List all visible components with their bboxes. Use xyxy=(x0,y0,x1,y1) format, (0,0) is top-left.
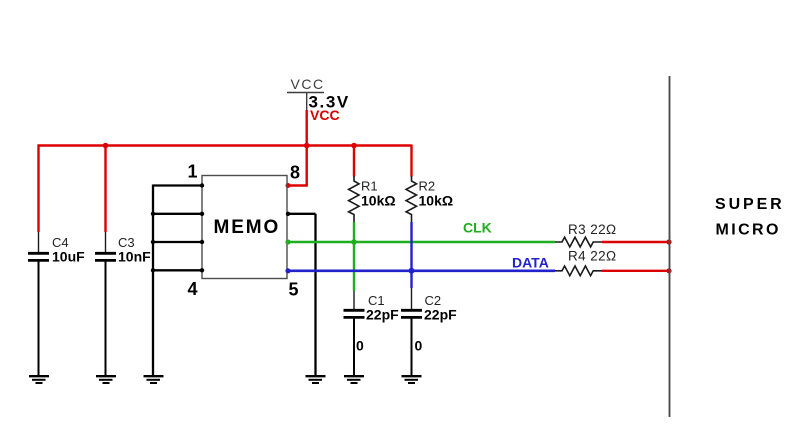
svg-text:22pF: 22pF xyxy=(424,307,457,323)
svg-text:CLK: CLK xyxy=(463,220,492,236)
wire VCC drop to R1 xyxy=(353,146,355,177)
wire CLK net (green horizontal) xyxy=(287,241,555,244)
svg-text:0: 0 xyxy=(356,338,364,354)
wire pin 3 stub xyxy=(153,241,202,243)
junction pin 3 xyxy=(200,240,204,244)
svg-text:1: 1 xyxy=(188,162,198,182)
wire R3 to header (red) xyxy=(602,241,670,243)
svg-text:22pF: 22pF xyxy=(366,307,399,323)
ground (chip left pins) xyxy=(144,376,164,383)
ground (pin 7) xyxy=(306,376,326,383)
resistor R2 xyxy=(406,176,416,222)
resistor R3 xyxy=(555,237,602,247)
capacitor C2 xyxy=(401,288,422,375)
svg-text:VCC: VCC xyxy=(310,107,340,123)
capacitor C3 xyxy=(95,232,116,375)
header bus line (right vertical) xyxy=(669,76,671,417)
wire VCC drop to R2 xyxy=(410,145,412,177)
wire R2 bottom to DATA xyxy=(410,222,412,271)
ground (C3) xyxy=(96,376,116,383)
resistor R4 xyxy=(555,266,602,276)
svg-text:10kΩ: 10kΩ xyxy=(419,193,454,209)
wire DATA net (blue horizontal) xyxy=(287,269,555,272)
svg-text:10nF: 10nF xyxy=(118,249,151,265)
chip U1 MEMO body xyxy=(202,176,287,279)
svg-text:R4 22Ω: R4 22Ω xyxy=(568,249,617,264)
capacitor C4 xyxy=(28,232,49,375)
svg-text:MICRO: MICRO xyxy=(716,222,781,239)
wire CLK to C1 xyxy=(353,242,355,291)
junction on bus at C3 xyxy=(103,143,109,149)
junction on bus at VCC stem xyxy=(304,143,310,149)
wire pin 1 stub xyxy=(153,184,202,186)
wire pin 4 stub xyxy=(153,269,202,271)
ground (C1) xyxy=(344,376,364,383)
junction chain pin 2 xyxy=(151,212,155,216)
ground (C2) xyxy=(402,376,422,383)
wire pin 7 vertical to ground xyxy=(314,214,316,375)
junction CLK at R1/C1 xyxy=(351,239,357,245)
junction on bus at R1 xyxy=(351,143,357,149)
svg-text:10uF: 10uF xyxy=(52,249,85,265)
svg-text:R3 22Ω: R3 22Ω xyxy=(568,222,617,237)
svg-text:0: 0 xyxy=(415,338,423,354)
wire pin 7 stub xyxy=(287,213,316,215)
wire VCC drop to C4 xyxy=(37,145,39,233)
svg-text:4: 4 xyxy=(188,279,198,299)
svg-text:R2: R2 xyxy=(419,179,436,194)
svg-text:MEMO: MEMO xyxy=(214,217,281,238)
svg-text:DATA: DATA xyxy=(512,255,549,271)
wire VCC bus (red horizontal) xyxy=(38,144,412,146)
junction chain pin 3 xyxy=(151,240,155,244)
junction pin 2 xyxy=(200,212,204,216)
wire left chain vertical to ground xyxy=(152,185,154,376)
power symbol VCC xyxy=(287,76,325,110)
wire pin 2 stub xyxy=(153,213,202,215)
svg-text:R1: R1 xyxy=(361,179,378,194)
junction CLK at pin 6 xyxy=(285,239,290,244)
junction pin 7 xyxy=(286,212,290,216)
junction chain pin 4 xyxy=(151,268,155,272)
svg-text:VCC: VCC xyxy=(291,76,325,92)
junction DATA at pin 5 xyxy=(285,268,290,273)
junction pin 4 xyxy=(200,268,204,272)
svg-text:8: 8 xyxy=(290,163,300,183)
ground (C4) xyxy=(29,376,49,383)
wire R4 to header (red) xyxy=(602,270,670,272)
wire VCC drop to C3 xyxy=(104,146,106,233)
junction DATA at R2/C2 xyxy=(409,268,415,274)
resistor R1 xyxy=(349,176,359,222)
junction pin 1 xyxy=(200,183,204,187)
svg-text:SUPER: SUPER xyxy=(715,196,785,213)
junction R4 at header xyxy=(666,268,671,273)
wire DATA to C2 xyxy=(410,271,412,288)
junction R3 at header xyxy=(666,239,671,244)
svg-text:10kΩ: 10kΩ xyxy=(361,193,396,209)
junction at pin 8 xyxy=(286,183,291,188)
svg-text:5: 5 xyxy=(289,280,299,300)
capacitor C1 xyxy=(344,291,365,375)
wire R1 bottom to CLK xyxy=(353,222,355,242)
wire VCC symbol drop to pin 8 xyxy=(306,110,308,186)
